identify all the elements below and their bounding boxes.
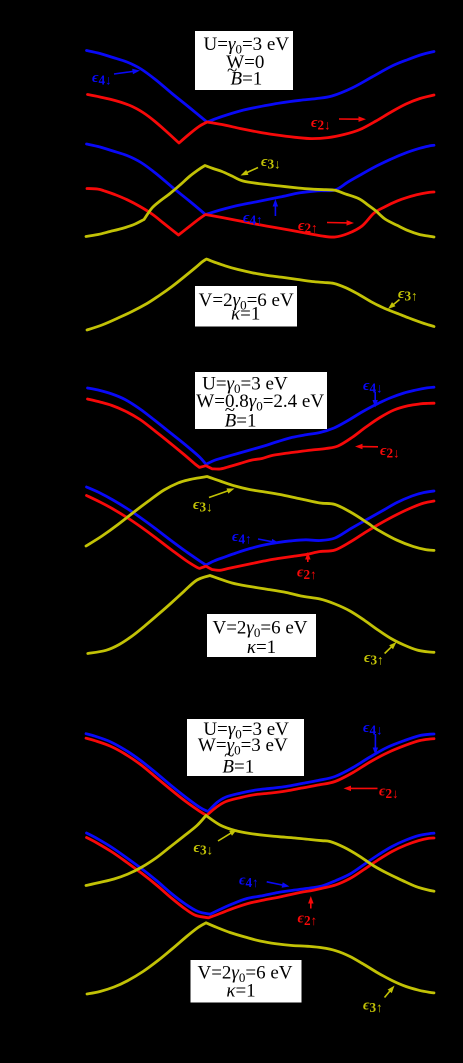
svg-text:ϵ3↑: ϵ3↑ (398, 286, 418, 304)
svg-text:ϵ2↓: ϵ2↓ (380, 443, 400, 461)
svg-text:ϵ4↑: ϵ4↑ (243, 210, 263, 228)
svg-text:ϵ4↑: ϵ4↑ (232, 529, 252, 547)
svg-text:ϵ3↓: ϵ3↓ (261, 154, 281, 172)
parameter box panel1 lower (195, 286, 297, 327)
band eps2-up panel3 (87, 838, 435, 918)
svg-text:ϵ3↓: ϵ3↓ (194, 840, 214, 858)
parameter box panel3 (187, 719, 304, 776)
svg-text:W=γ0=3 eV: W=γ0=3 eV (198, 735, 288, 758)
svg-text:ϵ4↑: ϵ4↑ (239, 873, 259, 891)
svg-text:ϵ3↓: ϵ3↓ (193, 497, 213, 515)
svg-text:κ=1: κ=1 (231, 304, 260, 325)
parameter box panel2 (195, 372, 327, 429)
svg-text:κ=1: κ=1 (247, 637, 276, 658)
band eps2-down panel1 (88, 95, 435, 144)
band eps4-down panel1 (87, 51, 435, 123)
band eps4-down panel3 (86, 734, 434, 812)
svg-text:~: ~ (225, 399, 235, 420)
svg-text:ϵ2↓: ϵ2↓ (379, 784, 399, 802)
band eps4-up panel1 (87, 144, 435, 215)
band eps2-down panel2 (88, 399, 435, 469)
band eps2-up panel1 (87, 189, 434, 238)
parameter box panel3 lower (191, 960, 302, 1003)
band eps3-up panel1 (87, 259, 434, 330)
svg-text:ϵ4↓: ϵ4↓ (363, 378, 383, 396)
parameter box panel2 lower (207, 614, 316, 657)
band eps4-up panel2 (87, 487, 435, 565)
band eps2-up panel2 (87, 496, 435, 571)
band eps3-up panel3 (87, 923, 434, 994)
svg-text:ϵ2↑: ϵ2↑ (298, 218, 318, 236)
svg-text:ϵ4↓: ϵ4↓ (363, 720, 383, 738)
svg-text:ϵ2↑: ϵ2↑ (298, 911, 318, 929)
svg-text:κ=1: κ=1 (226, 981, 255, 1002)
svg-text:ϵ4↓: ϵ4↓ (92, 70, 112, 88)
svg-text:ϵ3↑: ϵ3↑ (364, 650, 384, 668)
svg-text:~: ~ (227, 60, 237, 81)
svg-text:ϵ2↓: ϵ2↓ (311, 115, 331, 133)
band eps4-down panel2 (88, 387, 435, 464)
svg-text:~: ~ (224, 745, 234, 766)
band eps3-up panel2 (88, 576, 434, 654)
band eps4-up panel3 (87, 833, 435, 914)
parameter box panel1 (195, 31, 293, 90)
band eps2-down panel3 (86, 738, 434, 815)
svg-text:ϵ3↑: ϵ3↑ (363, 998, 383, 1016)
band eps3-down panel1 (86, 166, 434, 238)
svg-text:ϵ2↑: ϵ2↑ (297, 565, 317, 583)
band eps3-down panel3 (86, 816, 434, 892)
band eps3-down panel2 (86, 477, 434, 551)
